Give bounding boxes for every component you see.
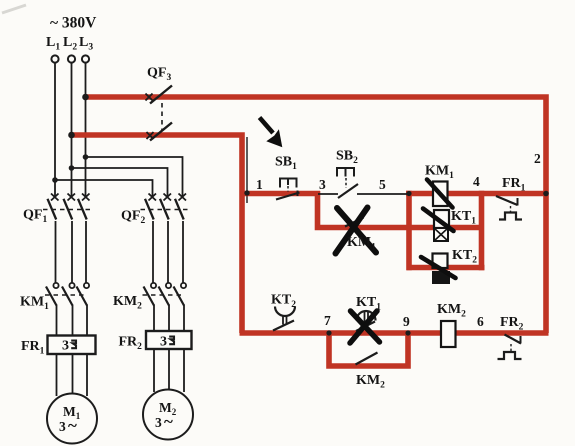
wire KM2 poles down to FR2 — [153, 305, 155, 333]
wire rung1 node3 to coil column (through SB2) — [318, 193, 338, 195]
SB1 blade — [276, 193, 300, 200]
junction dot L2 tap — [69, 165, 75, 171]
svg-text:3: 3 — [319, 177, 326, 192]
junction dot rung1 at coil column — [406, 191, 411, 196]
FR2 blade — [505, 335, 522, 344]
QF3 pole2 blade — [150, 123, 172, 141]
contactor KM1 main contacts — [45, 283, 89, 335]
KT2 delay semicircle — [275, 307, 295, 317]
scan artifact streak — [2, 5, 26, 13]
svg-text:6: 6 — [477, 314, 484, 329]
junction dot node2 — [543, 191, 549, 197]
QF1 pole3 contact x — [82, 194, 90, 201]
svg-text:~: ~ — [164, 412, 173, 431]
cross-out X over KT1 contact — [350, 311, 380, 343]
FR1 heater element glyph — [71, 341, 76, 349]
KT2 delay element solid — [432, 271, 450, 284]
QF2 pole1 blade — [145, 199, 154, 220]
cross-out slash over KT2 coil — [421, 257, 456, 278]
thermal relay FR1 heater box — [48, 336, 96, 355]
cross-out slash over KM1 coil — [427, 180, 453, 208]
FR1 element symbol — [499, 213, 522, 220]
QF1 pole2 blade — [64, 199, 73, 220]
QF1 pole1 blade — [48, 199, 57, 220]
cross-out slash over KT1 coil — [423, 209, 454, 232]
wire residual black control line — [246, 137, 248, 203]
QF1 pole2 contact x — [68, 194, 76, 201]
motor M2 — [143, 390, 193, 440]
coil KM1 — [433, 182, 448, 207]
FR2 element symbol — [498, 352, 522, 359]
red wire KM2 self-lock loop — [329, 333, 408, 366]
svg-text:7: 7 — [324, 313, 331, 328]
svg-text:3: 3 — [59, 419, 66, 434]
junction dot L1 tap — [52, 177, 58, 183]
FR1 dashed link — [510, 206, 512, 213]
red wire coil column right vertical — [479, 191, 485, 270]
KT1 delay semicircle — [357, 311, 376, 321]
time contact KT1 (crossed out) — [356, 311, 376, 332]
KT1 delay stem double lines — [364, 311, 366, 323]
red feed wire from L3 through QF3 pole1 to node 2 column — [86, 97, 547, 333]
wire QF2 pole3 down — [182, 221, 184, 283]
wire L1 vertical — [55, 63, 86, 197]
svg-text:9: 9 — [403, 314, 410, 329]
coil KT1 — [434, 210, 449, 228]
KT2 delay stem double lines — [282, 315, 284, 325]
QF3 pole1 blade — [150, 86, 172, 104]
svg-text:5: 5 — [379, 177, 386, 192]
red wire coil row1 KM1 to node2 — [406, 191, 549, 197]
FR2 contact tick — [520, 336, 522, 344]
FR1 blade — [496, 196, 518, 205]
breaker QF3 — [146, 86, 173, 141]
KM2 link dashed — [143, 294, 182, 296]
QF1 pole3 blade — [78, 199, 87, 220]
cross-out X over KM1 self-lock contact — [336, 208, 377, 254]
thermal relay FR2 heater box — [146, 331, 192, 349]
junction dot node9 — [405, 330, 410, 335]
red wire rung1 node1 to node3 (through SB1) — [240, 191, 320, 197]
QF2 pole3 contact x — [179, 194, 187, 201]
time contact KT2 (delayed closing NO) — [273, 307, 295, 331]
junction dot L2 red feed — [68, 132, 75, 139]
QF2 pole2 contact x — [164, 194, 172, 201]
QF2 pole1 contact x — [149, 194, 157, 201]
QF2 link dashed — [141, 209, 189, 211]
thermal contact FR2 — [498, 335, 522, 360]
wire KM1 poles down to FR1 — [56, 305, 58, 336]
svg-text:3: 3 — [155, 415, 162, 430]
contactor KM2 main contacts — [143, 283, 187, 332]
coil KM2 — [441, 321, 456, 347]
KT2 contact blade — [273, 321, 294, 331]
junction dot L3 tap — [83, 154, 89, 160]
wires FR2 to motor M2 — [154, 350, 184, 392]
wire QF2 pole2 down — [167, 221, 169, 283]
FR2 heater element glyph — [169, 337, 174, 345]
breaker QF1 — [43, 194, 91, 284]
wire QF1 pole3 down — [85, 221, 87, 283]
annotation arrow pointing at SB1 — [260, 118, 283, 148]
red wire bottom rung — [240, 330, 549, 336]
wire QF2 pole1 down — [152, 221, 154, 283]
thermal contact FR1 — [496, 196, 522, 220]
FR1 contact tick — [517, 198, 519, 206]
QF2 pole2 blade — [160, 199, 169, 220]
svg-text:4: 4 — [473, 174, 480, 189]
svg-text:2: 2 — [534, 151, 541, 166]
QF1 pole1 contact x — [51, 194, 59, 201]
junction dot node7 — [326, 330, 331, 335]
wire L3 vertical — [85, 63, 87, 197]
wire tap L1 to QF2 left pole — [55, 180, 153, 197]
wire QF1 pole1 down — [55, 221, 57, 283]
breaker QF2 — [141, 194, 189, 220]
terminal L1 — [51, 55, 58, 62]
pushbutton SB1 (NC) — [276, 179, 300, 200]
terminal L3 — [82, 55, 89, 62]
QF3 pole1 contact x — [146, 94, 153, 101]
KM1 link dashed — [45, 294, 84, 296]
wire tap L2 to QF2 middle pole — [72, 168, 168, 197]
junction dot node1 — [244, 190, 249, 195]
QF1 link dashed — [43, 209, 91, 211]
wire QF1 pole2 down — [71, 221, 73, 283]
svg-text:~: ~ — [68, 416, 77, 435]
KT1 delay element box with X — [434, 228, 448, 241]
red wire branch node3 down and along KT1 coil row — [318, 191, 483, 228]
motor M1 — [47, 394, 97, 444]
KT1 contact blade — [356, 322, 375, 332]
red wire coil row3 KT2 — [407, 265, 485, 271]
red feed wire from L2 through QF3 pole2 to node1 column — [72, 135, 243, 333]
coil KT2 — [433, 254, 448, 269]
junction dot L3 red feed — [82, 94, 89, 101]
QF2 pole3 blade — [175, 199, 184, 220]
wires FR1 to motor M1 — [57, 353, 88, 396]
wire L2 vertical — [71, 63, 73, 197]
terminal L2 — [68, 55, 75, 62]
contact KM2 self-lock blade — [356, 353, 378, 365]
svg-text:3: 3 — [160, 335, 167, 350]
red wire coil column left vertical — [406, 191, 412, 270]
svg-text:~ 380V: ~ 380V — [50, 15, 97, 32]
FR2 dashed link — [510, 344, 512, 352]
QF3 mechanical link dashed — [161, 103, 163, 130]
SB2 blade — [338, 184, 358, 198]
wire tap L3 to QF2 right pole — [86, 157, 183, 197]
svg-text:1: 1 — [256, 177, 263, 192]
pushbutton SB2 (NO) — [337, 168, 358, 198]
svg-text:3: 3 — [62, 339, 69, 354]
SB1 right contact tick — [297, 191, 299, 197]
QF3 pole2 contact x — [147, 132, 154, 139]
contact KM1 self-lock blade (crossed out) — [345, 218, 364, 227]
